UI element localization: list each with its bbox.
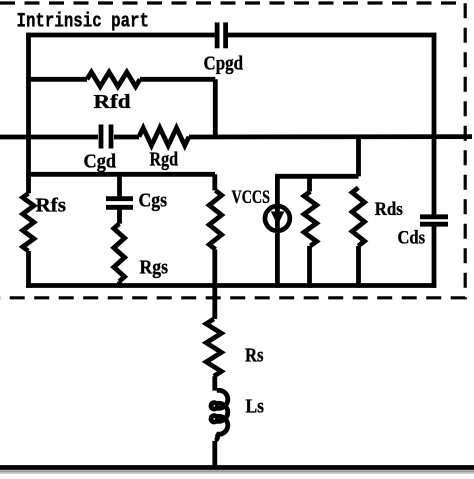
resistor Rgs	[114, 224, 125, 282]
wire: bottom bus of intrinsic box	[26, 283, 436, 288]
wire: VCCS sub-net horizontal	[275, 174, 358, 179]
svg-text:Ls: Ls	[246, 397, 265, 418]
svg-text:Cgs: Cgs	[139, 190, 168, 212]
resistor Rds	[352, 188, 364, 246]
svg-text:Rgd: Rgd	[150, 149, 179, 171]
capacitor Cds	[420, 214, 448, 219]
resistor Rgd	[139, 128, 189, 146]
dashed box: intrinsic part boundary	[0, 3, 465, 298]
svg-text:Cgd: Cgd	[84, 151, 117, 173]
wire: main gate-drain bus, left segment	[0, 135, 98, 140]
resistor Rfd (with its feed line)	[29, 77, 88, 82]
wire: right vertical below Cds	[432, 227, 437, 288]
svg-text:Rs: Rs	[245, 346, 264, 367]
wire: bus between Cgd and Rgd	[114, 135, 139, 140]
svg-text:Cpgd: Cpgd	[204, 53, 244, 75]
wire: bottom source rail	[0, 465, 474, 470]
resistor Rs	[206, 319, 221, 376]
capacitor Cgd	[99, 125, 104, 149]
resistor (unlabeled) on source branch: top lead	[212, 174, 217, 190]
capacitor Cgs plates	[106, 196, 133, 201]
bottom edge shading	[0, 470, 474, 472]
wire: left vertical (gate-side rail)	[26, 33, 31, 177]
wire: top line (left of Cpgd)	[26, 33, 215, 38]
wire: top line (right of Cpgd)	[228, 33, 436, 38]
wire: Cgs to Rgs	[117, 210, 122, 224]
svg-text:Rgs: Rgs	[140, 257, 169, 279]
wire: Ls down to source rail	[212, 441, 217, 468]
capacitor Cgs branch: top lead	[117, 174, 122, 196]
svg-text:Intrinsic part: Intrinsic part	[17, 11, 150, 34]
current source VCCS (circle)	[265, 206, 290, 231]
svg-text:Cds: Cds	[398, 228, 426, 249]
current source VCCS arrow	[271, 211, 285, 225]
wire: source branch through bottom bus, down out of box	[212, 249, 217, 319]
wire: its bottom lead	[307, 246, 312, 288]
svg-text:VCCS: VCCS	[232, 187, 271, 208]
inductor Ls	[211, 390, 228, 440]
capacitor Cpgd	[215, 22, 220, 48]
svg-text:Rfs: Rfs	[36, 195, 67, 217]
resistor Rfs	[26, 174, 31, 193]
wire: VCCS bottom lead	[275, 231, 280, 288]
resistor (unlabeled, right of VCCS): top lead	[307, 176, 312, 191]
wire: VCCS top lead	[275, 176, 280, 232]
wire: Rfd drop to main bus	[213, 79, 218, 139]
wire: source bus (inner gate node)	[26, 172, 215, 177]
wire: drop from bus to VCCS sub-net	[356, 137, 361, 177]
svg-text:Rfd: Rfd	[94, 91, 131, 113]
wire: main bus right segment (to drain lead)	[189, 134, 472, 139]
svg-text:Rds: Rds	[375, 199, 403, 220]
wire: right vertical above Cds	[432, 33, 437, 215]
wire: Rs to Ls	[212, 376, 217, 390]
